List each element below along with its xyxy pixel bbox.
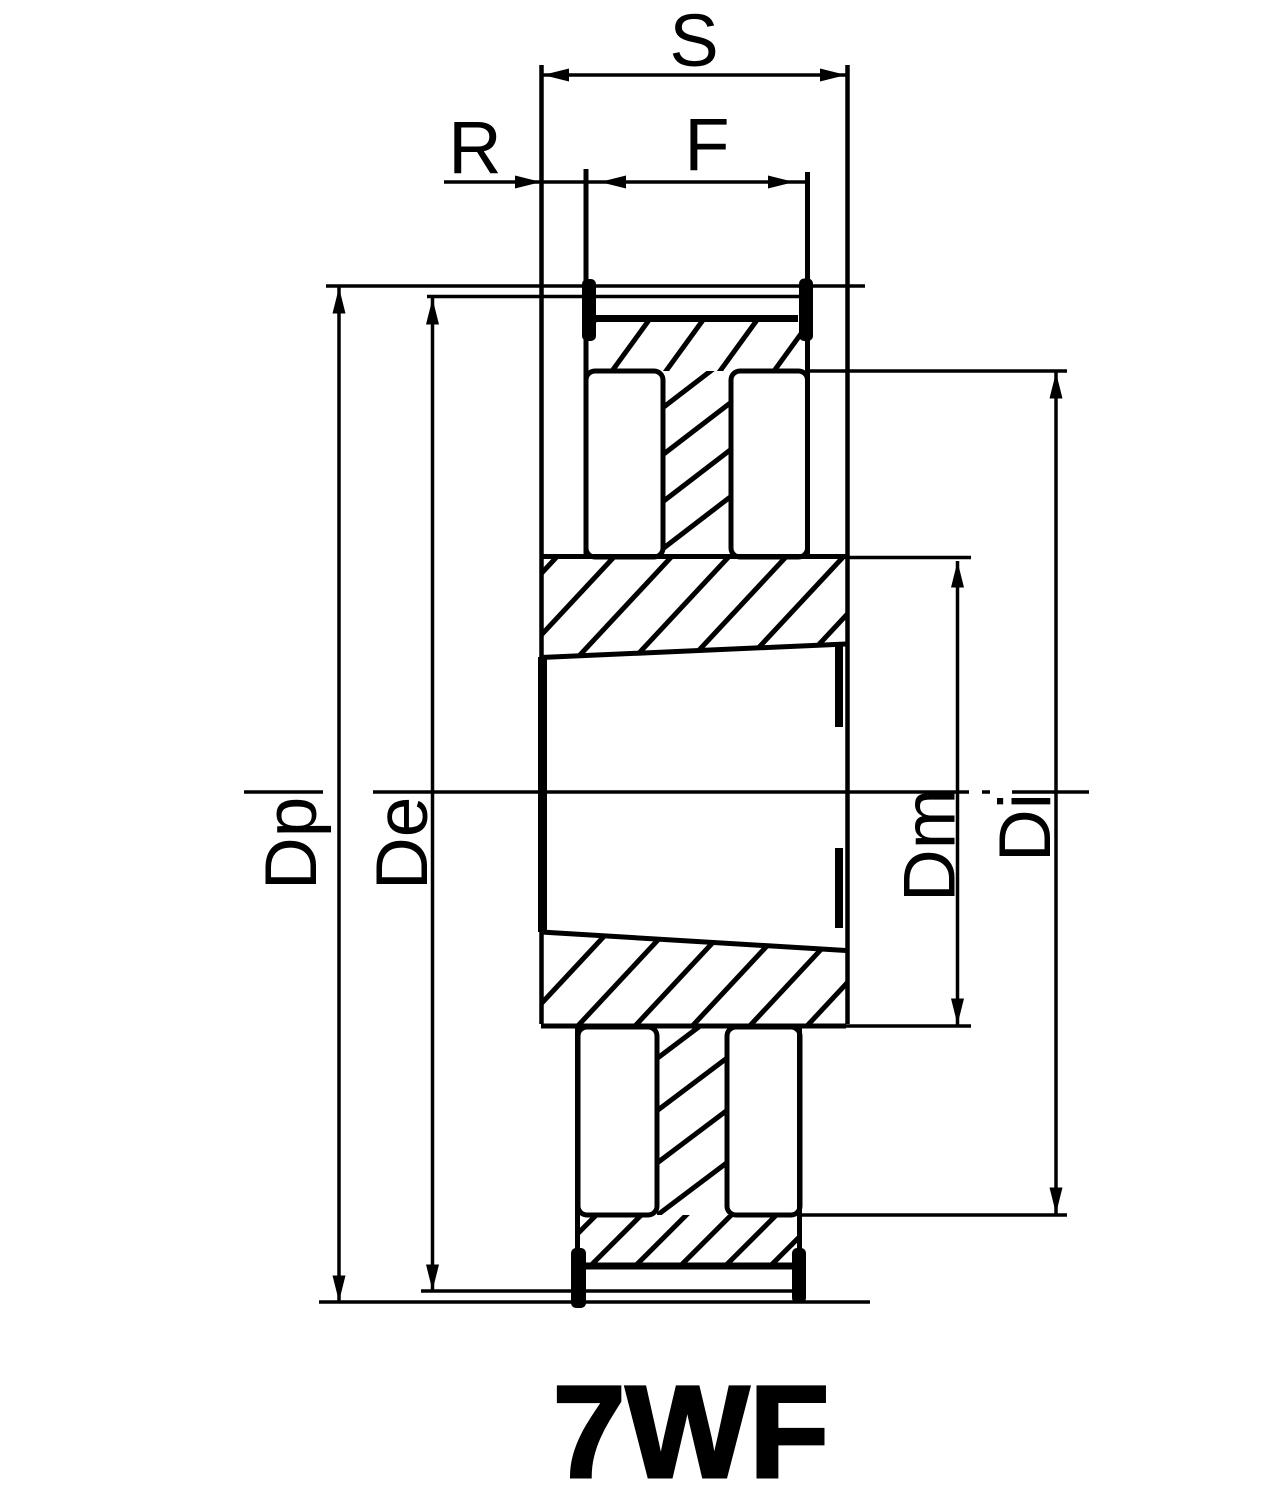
svg-text:De: De [362,797,443,890]
svg-text:F: F [684,103,729,186]
svg-text:Di: Di [985,793,1066,862]
svg-text:Dm: Dm [890,788,971,902]
svg-text:7WF: 7WF [553,1358,830,1500]
svg-text:S: S [669,0,718,82]
svg-text:Dp: Dp [251,797,332,890]
svg-text:R: R [448,106,501,189]
